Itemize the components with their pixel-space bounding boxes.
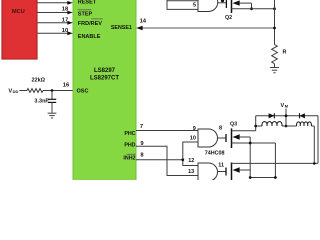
- wire node to inputs 10 and 12: [181, 142, 198, 166]
- svg-text:MCU: MCU: [12, 9, 25, 15]
- wire Q3 drain to winding A: [255, 116, 257, 131]
- wire ENABLE pin 10: [37, 28, 73, 35]
- wire PHD to gate input 13: [136, 146, 198, 175]
- svg-text:17: 17: [62, 18, 68, 24]
- pin label INH2 pin 8 (with overline): [123, 154, 135, 161]
- wire diode rail to Q4 drain: [317, 116, 319, 164]
- svg-text:7: 7: [140, 124, 143, 130]
- svg-text:RESET: RESET: [78, 0, 97, 6]
- svg-text:8: 8: [219, 126, 222, 132]
- wire RESET MCU to U4: [37, 1, 73, 5]
- svg-text:18: 18: [62, 7, 69, 13]
- transistor Q2: [225, 0, 275, 21]
- wire winding B end to Q4 drain: [313, 126, 316, 165]
- svg-text:FRD/REV: FRD/REV: [78, 21, 102, 27]
- resistor R: [272, 45, 287, 68]
- and-gate U2a 74HC08 (inputs 9,10 output 8): [198, 126, 226, 147]
- svg-text:STEP: STEP: [78, 12, 93, 18]
- node junction osc: [51, 89, 54, 92]
- svg-text:Q3: Q3: [230, 122, 237, 128]
- svg-text:13: 13: [188, 169, 194, 175]
- pin label FRD/REV (REV overline): [78, 19, 103, 27]
- wire SENSE1 pin 14: [136, 19, 274, 31]
- svg-text:DD: DD: [13, 89, 19, 94]
- ground (R): [270, 68, 279, 73]
- node Q2 source to sense: [273, 7, 276, 10]
- svg-text:M: M: [285, 104, 288, 109]
- ground (cap): [48, 113, 57, 118]
- node VM: [281, 103, 289, 127]
- MCU U3: [2, 0, 37, 59]
- svg-text:Q2: Q2: [225, 15, 232, 21]
- wire flyback top rail: [256, 115, 318, 117]
- svg-text:14: 14: [140, 19, 147, 25]
- node SENSE1 junction: [273, 27, 276, 30]
- and-gate U1a (top, partially cut): [167, 0, 226, 12]
- svg-text:9: 9: [193, 126, 196, 132]
- inductor winding B: [286, 122, 314, 126]
- svg-text:3.3nF: 3.3nF: [34, 98, 49, 104]
- diode D2: [300, 113, 305, 118]
- node VDD: [8, 88, 27, 94]
- wire sense vertical: [274, 0, 276, 45]
- svg-text:ENABLE: ENABLE: [78, 34, 101, 40]
- svg-text:LS8297CT: LS8297CT: [90, 75, 119, 81]
- transistor Q3: [226, 122, 275, 148]
- svg-text:INH2: INH2: [123, 156, 135, 162]
- capacitor 3.3nF: [34, 91, 56, 114]
- wire resistor to OSC pin 16: [43, 83, 73, 91]
- svg-text:PHD: PHD: [124, 142, 135, 148]
- wire PHC to gate input 9: [136, 130, 198, 132]
- svg-text:10: 10: [62, 28, 68, 34]
- svg-text:22kΩ: 22kΩ: [32, 78, 46, 84]
- wire Q3 sources bus: [249, 137, 277, 179]
- svg-text:74HC08: 74HC08: [205, 151, 225, 157]
- wire STEP pin 18: [37, 7, 73, 15]
- wire INH2 to node: [136, 159, 183, 161]
- svg-text:12: 12: [188, 158, 194, 164]
- svg-text:LS8297: LS8297: [94, 68, 116, 74]
- svg-text:SENSE1: SENSE1: [111, 25, 132, 31]
- svg-text:OSC: OSC: [77, 89, 89, 95]
- resistor 22k: [27, 78, 46, 93]
- svg-text:11: 11: [218, 162, 224, 168]
- svg-text:PHC: PHC: [124, 131, 135, 137]
- and-gate U2b 74HC08 (inputs 12,13 output 11): [198, 162, 226, 181]
- IC LS8297 U4: [73, 0, 136, 182]
- wire FRD/REV pin 17: [37, 18, 73, 25]
- inductor winding A: [254, 122, 286, 128]
- svg-text:R: R: [283, 49, 287, 55]
- transistor Q4: [226, 163, 318, 181]
- svg-text:5: 5: [193, 3, 196, 9]
- pin label STEP (with overline): [78, 10, 93, 18]
- diode D1: [269, 113, 275, 118]
- svg-text:10: 10: [190, 135, 196, 141]
- svg-text:16: 16: [63, 83, 70, 89]
